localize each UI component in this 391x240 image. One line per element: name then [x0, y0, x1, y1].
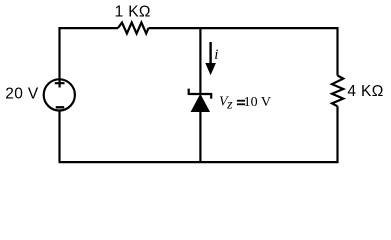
svg-text:20 V: 20 V	[5, 85, 39, 102]
wire middle upper: top wire down to zener cathode	[199, 28, 201, 94]
wire middle lower: zener anode to bottom wire	[199, 111, 201, 163]
source V1 minus sign	[56, 106, 64, 108]
wire bottom: across full width	[59, 161, 339, 163]
svg-text:4 KΩ: 4 KΩ	[347, 83, 383, 100]
wire right upper: top corner down to resistor R2	[336, 27, 338, 76]
zener D1 triangle (anode, filled)	[191, 95, 209, 112]
source V1 circle	[44, 79, 75, 110]
resistor R1 zigzag (1 KΩ)	[118, 23, 149, 34]
equals sign of Vz label	[237, 100, 245, 102]
svg-text:i: i	[214, 47, 218, 63]
zener D1 left bent tail	[188, 89, 190, 95]
resistor R2 zigzag (4 KΩ)	[332, 76, 343, 107]
wire left: top corner down to source V1	[58, 27, 60, 79]
current arrow i shaft	[209, 42, 211, 66]
wire top-left: from left corner to resistor R1	[60, 27, 119, 29]
svg-text:10 V: 10 V	[244, 95, 271, 110]
zener D1 cathode bar	[189, 93, 212, 95]
wire right lower: R2 to bottom-right corner	[336, 106, 338, 163]
source V1 plus sign	[55, 79, 65, 88]
svg-text:1 KΩ: 1 KΩ	[115, 3, 151, 20]
wire left lower: source V1 to bottom wire	[58, 111, 60, 162]
zener D1 right bent tail	[210, 93, 212, 99]
wire top-right: from R1 to top-right corner	[149, 27, 338, 29]
current arrow i head	[205, 63, 216, 75]
